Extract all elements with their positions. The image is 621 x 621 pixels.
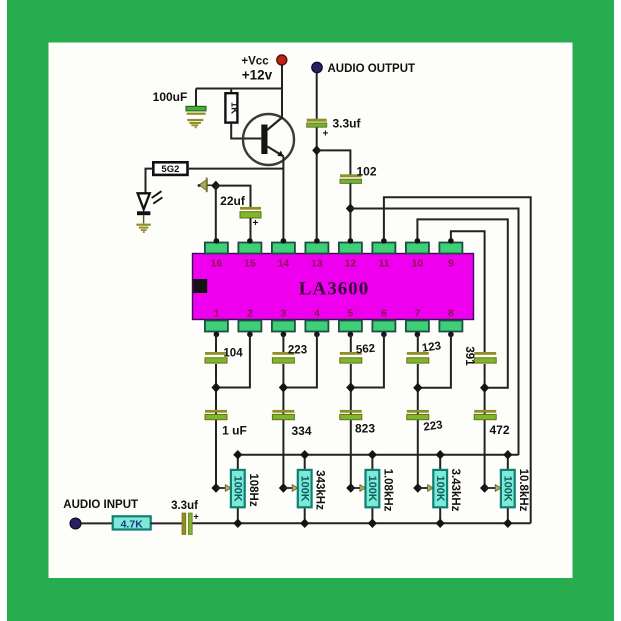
pin number 6 [381, 308, 387, 320]
svg-text:3.3uf: 3.3uf [332, 117, 361, 131]
wire VR1 top lead [237, 455, 239, 470]
wire VR1 bottom lead [237, 507, 239, 523]
pin number 12 [345, 258, 357, 270]
node +12v [242, 68, 273, 83]
junction band3 [346, 383, 355, 393]
svg-text:4.7K: 4.7K [121, 518, 144, 530]
capacitor 22uf [240, 207, 261, 229]
potentiometer VR5 100K [501, 470, 515, 507]
svg-text:6: 6 [381, 308, 387, 320]
reference arrow at pin16 node [198, 177, 213, 192]
resistor 1K [225, 93, 239, 122]
wire top rail 100uF/1K/Vcc [196, 88, 283, 90]
junction VR4 bottom [436, 519, 445, 528]
svg-text:4: 4 [314, 308, 320, 320]
capacitor 391 [474, 352, 496, 363]
pin 12 pad [339, 238, 362, 253]
svg-text:3.43kHz: 3.43kHz [449, 469, 461, 512]
pin number 3 [280, 308, 286, 320]
wire VR4 top lead [439, 455, 441, 470]
svg-text:+Vcc: +Vcc [241, 56, 269, 68]
label 823 [355, 422, 375, 436]
junction VR3 bottom [368, 519, 377, 528]
svg-text:104: 104 [223, 348, 243, 360]
label 3.43kHz [449, 469, 461, 512]
pin 8 pad [439, 321, 462, 338]
wire pin12 feedback to pot-top bus [350, 209, 518, 456]
wire VR3 wiper arrow [351, 485, 366, 492]
wire node down to pin 16 [215, 186, 217, 243]
wire VR4 bottom lead [439, 507, 441, 523]
svg-text:100K: 100K [298, 476, 310, 502]
pin number 16 [211, 258, 223, 270]
label 334 [291, 424, 311, 438]
junction VR5 top [503, 450, 512, 459]
junction VR4 top [436, 450, 445, 459]
wire VR3 top lead [371, 455, 373, 470]
label 1.08kHz [381, 469, 393, 512]
label 10.8kHz [517, 469, 529, 512]
pin 14 pad [272, 238, 295, 253]
potentiometer VR4 100K [433, 470, 447, 507]
label 3.3uf input [171, 500, 198, 512]
svg-text:102: 102 [356, 165, 376, 179]
svg-text:11: 11 [378, 258, 389, 270]
capacitor 123 [407, 352, 429, 363]
wire VR5 wiper arrow [485, 485, 501, 492]
AUDIO OUTPUT node dot [312, 62, 322, 72]
wire pin6 to band3 junction [351, 335, 384, 388]
wire VR2 bottom lead [304, 507, 306, 523]
svg-text:1: 1 [213, 308, 219, 320]
label 123 [421, 340, 442, 355]
svg-text:8: 8 [448, 308, 454, 320]
junction VR3 wiper [346, 483, 355, 492]
svg-text:2: 2 [247, 308, 253, 320]
svg-text:10.8kHz: 10.8kHz [517, 469, 529, 512]
capacitor 562 [340, 352, 362, 363]
svg-text:1K: 1K [229, 102, 240, 114]
junction VR5 bottom [503, 519, 512, 528]
wire pin5 column [350, 335, 352, 488]
svg-text:100K: 100K [501, 476, 513, 502]
junction VR5 wiper [480, 483, 489, 492]
pin number 1 [213, 308, 219, 320]
svg-text:108Hz: 108Hz [247, 473, 259, 506]
pin number 4 [314, 308, 320, 320]
pin 3 pad [272, 321, 295, 338]
svg-text:100K: 100K [231, 476, 243, 502]
wire pin3 column [282, 335, 284, 488]
svg-text:10: 10 [412, 258, 424, 270]
wire pin7 column [417, 335, 419, 488]
svg-text:1.08kHz: 1.08kHz [381, 469, 393, 512]
svg-text:+12v: +12v [242, 68, 273, 83]
svg-text:100K: 100K [366, 476, 378, 502]
wire 100uF lead [195, 89, 197, 107]
capacitor 334 [272, 410, 294, 420]
junction VR2 top [300, 450, 309, 459]
pin number 15 [244, 258, 256, 270]
svg-text:LA3600: LA3600 [299, 279, 369, 300]
label 22uf [220, 194, 246, 208]
Vcc supply dot [277, 55, 287, 65]
svg-text:AUDIO OUTPUT: AUDIO OUTPUT [328, 63, 416, 75]
wire pin9 riser loop to 391 [451, 231, 485, 353]
pin 10 pad [406, 238, 429, 253]
AUDIO INPUT node dot [70, 518, 81, 529]
svg-text:7: 7 [414, 308, 420, 320]
wire VR5 bottom lead [507, 507, 509, 523]
svg-text:472: 472 [489, 423, 509, 437]
wire pin1 column [215, 335, 217, 488]
svg-text:+: + [194, 512, 199, 522]
wire 3.3uf down to pin 13 [316, 127, 318, 243]
label 1uF [222, 424, 247, 438]
junction VR1 top [233, 450, 242, 459]
pin number 8 [448, 308, 454, 320]
wire junction right to 102 [317, 150, 351, 174]
potentiometer VR2 100K [298, 470, 312, 507]
svg-text:343kHz: 343kHz [314, 470, 326, 510]
resistor 5G2 box [153, 162, 187, 175]
pin 4 pad [305, 321, 328, 338]
capacitor 102 [340, 174, 362, 183]
label +Vcc [241, 56, 269, 68]
wire pin10 riser loop to band5 junction [417, 219, 507, 387]
label AUDIO OUTPUT [328, 63, 416, 75]
pin number 11 [378, 258, 389, 270]
capacitor 472 [474, 410, 496, 420]
pin 7 pad [406, 321, 429, 338]
junction pin16 node [211, 181, 220, 191]
svg-text:16: 16 [211, 258, 223, 270]
pin number 2 [247, 308, 253, 320]
capacitor 223a [272, 352, 294, 363]
potentiometer VR3 100K [366, 470, 380, 507]
junction VR3 top [368, 450, 377, 459]
junction band5 [480, 383, 489, 393]
pin number 9 [448, 258, 454, 270]
wire 102 down to pin 12 [349, 184, 351, 244]
junction VR2 wiper [279, 483, 288, 492]
svg-text:562: 562 [355, 343, 375, 357]
svg-text:5: 5 [347, 308, 353, 320]
svg-text:100K: 100K [434, 476, 446, 502]
wire VR2 wiper arrow [283, 485, 297, 492]
label 104 [223, 348, 243, 360]
pin number 14 [278, 258, 290, 270]
capacitor 3.3uf output [307, 119, 329, 140]
svg-text:3.3uf: 3.3uf [171, 500, 198, 512]
pin number 10 [412, 258, 424, 270]
junction VR1 wiper [211, 483, 220, 492]
svg-text:100uF: 100uF [153, 90, 188, 104]
capacitor 3.3uf input [182, 512, 199, 535]
label 102 [356, 165, 376, 179]
wire 4.7K to 3.3uf [151, 522, 182, 524]
label 472 [489, 423, 509, 437]
pin number 13 [311, 258, 323, 270]
wire 5G2 to emitter [188, 168, 284, 170]
svg-text:823: 823 [355, 422, 375, 436]
capacitor 1uF [205, 410, 227, 420]
svg-text:+: + [253, 218, 259, 229]
pin 9 pad [439, 238, 462, 253]
pin 16 pad [205, 238, 228, 253]
wire pin4 to band2 junction [283, 335, 317, 388]
label 562 [355, 343, 375, 357]
wire pot-top bus [238, 454, 519, 456]
LED D1 [137, 191, 162, 215]
resistor 4.7K [113, 516, 151, 530]
wire pin2 to band1 junction [216, 335, 250, 388]
junction band4 [413, 383, 422, 393]
wire VR3 bottom lead [371, 507, 373, 523]
label 343kHz [314, 470, 326, 510]
ground under 100uF [187, 119, 203, 128]
wire 1K top lead [230, 89, 232, 94]
wire VR5 top lead [507, 455, 509, 470]
svg-text:3: 3 [280, 308, 286, 320]
IC U1 LA3600 body [193, 254, 474, 320]
svg-text:15: 15 [244, 258, 256, 270]
pin 15 pad [238, 238, 261, 253]
capacitor 104 [205, 352, 227, 363]
wire input dot to 4.7K [81, 522, 113, 524]
junction band1 [211, 383, 220, 393]
svg-text:1 uF: 1 uF [222, 424, 247, 438]
pin 2 pad [238, 321, 261, 338]
label 391 [463, 346, 475, 366]
wire LED to ground [143, 215, 145, 223]
svg-text:14: 14 [278, 258, 290, 270]
pin 6 pad [372, 321, 395, 338]
potentiometer VR1 100K [231, 470, 245, 507]
label 100uF [153, 90, 188, 104]
pin number 7 [414, 308, 420, 320]
pin number 5 [347, 308, 353, 320]
label 108Hz [247, 473, 259, 506]
svg-text:+: + [323, 129, 329, 140]
pin 1 pad [205, 321, 228, 338]
label 223a [288, 345, 307, 357]
svg-text:391: 391 [463, 346, 475, 366]
capacitor 223b [407, 410, 429, 420]
inner white panel [49, 43, 573, 579]
wire Vcc vertical to collector [281, 65, 283, 118]
pin 11 pad [372, 238, 395, 253]
wire node to 22uf [216, 186, 251, 207]
svg-text:13: 13 [311, 258, 323, 270]
junction VR4 wiper [413, 483, 422, 492]
pin 5 pad [339, 321, 362, 338]
ground under LED [136, 224, 150, 233]
junction VR2 bottom [300, 519, 309, 528]
wire 1K bottom to base [231, 123, 261, 139]
svg-text:AUDIO INPUT: AUDIO INPUT [63, 499, 138, 511]
svg-text:12: 12 [345, 258, 357, 270]
wire VR4 wiper arrow [418, 485, 434, 492]
wire 22uf down to pin 15 [250, 218, 252, 243]
label 223b [423, 419, 444, 434]
junction band2 [279, 383, 288, 393]
svg-text:22uf: 22uf [220, 194, 246, 208]
wire emitter down to pin 14 [282, 157, 284, 244]
junction 102/pin12 [346, 204, 355, 214]
junction output/102 [312, 145, 321, 155]
wire VR1 wiper arrow [216, 485, 231, 492]
label 3.3uf output [332, 117, 361, 131]
junction VR1 bottom [233, 519, 242, 528]
svg-text:334: 334 [291, 424, 311, 438]
wire VR2 top lead [304, 455, 306, 470]
capacitor 823 [340, 410, 362, 420]
wire 5G2 left down to LED [146, 169, 154, 193]
svg-text:223: 223 [288, 345, 307, 357]
svg-text:9: 9 [448, 258, 454, 270]
svg-text:5G2: 5G2 [161, 164, 179, 175]
pin 13 pad [305, 238, 328, 253]
wire output dot down [316, 73, 318, 119]
wire pin8 to band4 junction [418, 335, 451, 388]
wire band5 column [484, 364, 486, 488]
capacitor C 100uF [186, 106, 206, 114]
transistor Q1 [243, 114, 294, 165]
wire pin11 riser and outer loop to lower bus [384, 197, 531, 523]
label AUDIO INPUT [63, 499, 138, 511]
wire lower bus [193, 522, 531, 524]
